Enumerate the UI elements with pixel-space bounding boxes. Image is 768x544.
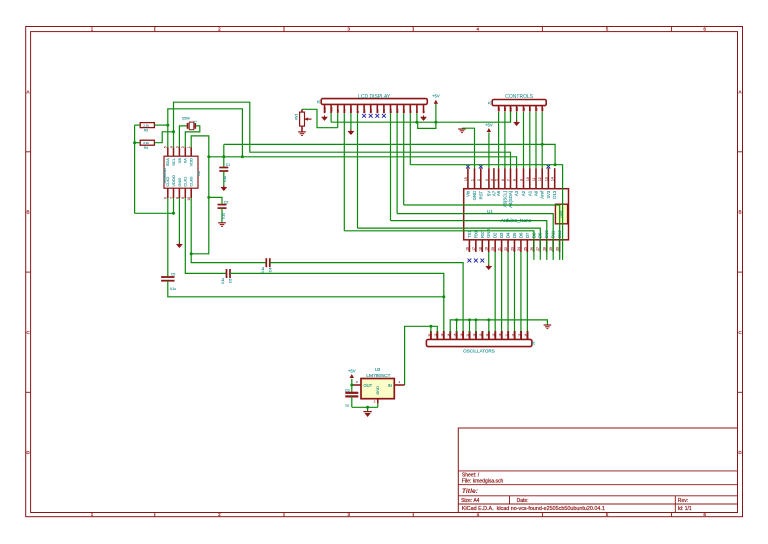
svg-text:GD: GD <box>515 107 519 111</box>
wire U1 GND bottom <box>488 252 490 266</box>
svg-text:+5V: +5V <box>432 93 440 98</box>
wire H1 bus <box>224 144 555 164</box>
capacitor C3 <box>351 385 353 393</box>
svg-text:A3: A3 <box>514 190 519 196</box>
svg-text:C5: C5 <box>171 272 175 276</box>
ic U3 GND pin <box>377 399 379 404</box>
wire osc pin5 stub <box>456 320 458 332</box>
svg-text:0.1u: 0.1u <box>261 267 265 273</box>
svg-text:D1: D1 <box>369 109 373 113</box>
wire controls pin1 to A6 <box>498 112 500 168</box>
svg-text:Vin: Vin <box>465 190 470 197</box>
svg-text:17: 17 <box>472 247 476 251</box>
svg-text:D4: D4 <box>506 232 511 238</box>
svg-text:GND: GND <box>177 178 182 187</box>
wire osc power line <box>405 326 438 385</box>
ic U3 LM7805 body <box>361 379 394 399</box>
connector J1 CONTROLS body <box>492 100 546 106</box>
wire gnd to arduino GND <box>462 128 475 168</box>
wire controls pin3 stub <box>510 112 512 122</box>
wire SCL route up-over <box>174 102 511 168</box>
wire osc pin8 stub <box>475 320 477 332</box>
svg-text:28: 28 <box>543 247 547 251</box>
capacitor C6 <box>226 269 228 278</box>
svg-text:D0: D0 <box>362 109 366 113</box>
frame column ticks <box>154 27 156 32</box>
svg-text:0.1u: 0.1u <box>170 287 176 291</box>
node SDA-VDD junction <box>241 155 244 158</box>
wire SDA route up-over <box>168 109 243 157</box>
wire LCD D7 down <box>409 113 411 165</box>
wire D5 line <box>397 214 553 260</box>
ground C1 <box>221 187 227 191</box>
svg-text:D7: D7 <box>525 232 530 238</box>
resistor R4 body <box>140 140 154 145</box>
wire U2 GND pin down <box>178 198 180 244</box>
svg-text:J1: J1 <box>487 101 491 105</box>
potentiometer RV1 wiper <box>305 118 312 120</box>
node osc pin5 <box>455 318 458 321</box>
ground controls pin4 <box>514 122 520 126</box>
svg-text:CLK1: CLK1 <box>183 176 188 187</box>
svg-text:B: B <box>738 210 741 215</box>
ic U1 USB box <box>555 204 567 224</box>
svg-text:+5V: +5V <box>485 123 493 128</box>
no-connect U1 RX0 <box>474 259 478 263</box>
svg-text:14: 14 <box>551 177 555 181</box>
svg-text:File: kmedgisa.sch: File: kmedgisa.sch <box>462 479 504 485</box>
connector J3 OSCILLATORS body <box>426 339 532 346</box>
svg-text:XA: XA <box>183 158 188 164</box>
wire rail loop <box>418 122 436 128</box>
crystal Y1 body <box>189 122 194 130</box>
wire CLK0 down <box>191 198 266 263</box>
wire SDA horizontal to A3 <box>209 157 517 168</box>
wire controls pin8 to Aref <box>541 112 543 168</box>
svg-text:26: 26 <box>530 247 534 251</box>
node R3-SDA junction <box>166 124 169 127</box>
wire D4 line <box>391 221 547 260</box>
wire +5V to arduino 5V pin <box>488 132 490 168</box>
wire RS line <box>344 231 534 260</box>
svg-text:5: 5 <box>495 179 499 181</box>
svg-text:Aref: Aref <box>540 190 545 199</box>
svg-text:4: 4 <box>477 27 480 32</box>
svg-text:23: 23 <box>510 247 514 251</box>
svg-text:5: 5 <box>164 146 168 148</box>
svg-text:U3: U3 <box>375 367 381 372</box>
ground C2 <box>218 222 226 224</box>
svg-text:9: 9 <box>520 179 524 181</box>
svg-text:J3: J3 <box>532 342 536 346</box>
resistor R4 left wire <box>135 142 141 144</box>
wire pullup rail to VDDO <box>135 212 174 214</box>
svg-text:A: A <box>415 111 419 113</box>
connector J1 pin stubs <box>498 106 500 112</box>
title block row lines <box>458 470 737 472</box>
svg-text:RST: RST <box>478 190 483 199</box>
svg-text:GND: GND <box>472 191 477 201</box>
svg-text:C1: C1 <box>226 163 230 167</box>
no-connect LCD D0 <box>362 114 366 118</box>
svg-text:VDD: VDD <box>189 158 194 167</box>
svg-text:SI5351A: SI5351A <box>162 168 167 184</box>
svg-text:S2: S2 <box>503 107 507 111</box>
svg-text:VDDO: VDDO <box>171 175 176 187</box>
resistor R4 right wire <box>154 132 173 143</box>
svg-text:D13: D13 <box>552 190 557 198</box>
connector J3 pin stubs <box>430 331 432 339</box>
svg-text:D6: D6 <box>402 109 406 113</box>
svg-text:25: 25 <box>523 247 527 251</box>
svg-text:RV1: RV1 <box>294 113 298 119</box>
wire controls pin4 gnd <box>516 112 518 122</box>
svg-text:A6: A6 <box>496 190 501 196</box>
no-connect U1 3V3 <box>547 165 551 169</box>
svg-text:24: 24 <box>517 247 521 251</box>
svg-text:3: 3 <box>347 512 350 517</box>
svg-text:25M: 25M <box>182 116 190 121</box>
svg-text:15: 15 <box>464 177 468 181</box>
ic U3 OUT pin <box>352 384 361 386</box>
svg-text:RS: RS <box>343 109 347 113</box>
svg-text:S1: S1 <box>497 107 501 111</box>
svg-text:V0: V0 <box>336 109 340 113</box>
svg-text:S4: S4 <box>528 107 532 111</box>
svg-text:S6: S6 <box>541 107 545 111</box>
svg-text:22: 22 <box>504 247 508 251</box>
svg-text:J2: J2 <box>317 100 321 104</box>
ground U1 bottom <box>486 266 492 270</box>
svg-text:CLK0: CLK0 <box>189 176 194 187</box>
svg-text:D2: D2 <box>376 109 380 113</box>
power +5V LCD <box>435 104 437 123</box>
capacitor C5 <box>161 276 174 278</box>
node pullup rail junction <box>133 141 136 144</box>
svg-text:D5: D5 <box>512 232 517 238</box>
svg-text:GND: GND <box>486 229 491 238</box>
svg-text:LCD DISPLAY: LCD DISPLAY <box>358 94 391 100</box>
node H1 controls junction <box>541 143 544 146</box>
wire U1 D3 to osc <box>501 252 503 332</box>
svg-text:13: 13 <box>544 177 548 181</box>
ground U3 <box>367 407 369 411</box>
no-connect LCD D2 <box>375 114 379 118</box>
svg-text:Title:: Title: <box>462 488 478 495</box>
svg-text:9: 9 <box>181 197 185 199</box>
svg-text:A2: A2 <box>521 190 526 196</box>
svg-text:0.1u: 0.1u <box>221 213 225 219</box>
svg-text:8: 8 <box>175 197 179 199</box>
svg-text:D6: D6 <box>518 232 523 238</box>
title block outline <box>458 428 737 513</box>
svg-text:C3: C3 <box>345 388 350 392</box>
svg-text:1: 1 <box>187 146 191 148</box>
wire pullup left rail <box>134 125 136 213</box>
frame row ticks <box>26 151 31 153</box>
svg-text:2: 2 <box>218 512 221 517</box>
svg-text:IN: IN <box>388 383 392 388</box>
title block column lines <box>509 496 511 504</box>
svg-text:3: 3 <box>175 146 179 148</box>
svg-text:C2: C2 <box>224 200 228 204</box>
wire crystal right to XA <box>185 126 200 147</box>
svg-text:19: 19 <box>485 247 489 251</box>
wire CLK2 line right <box>168 281 444 297</box>
svg-text:VSS: VSS <box>323 107 327 113</box>
wire rail to controls pin3 <box>436 106 511 123</box>
resistor R3 left wire <box>135 124 141 126</box>
svg-text:C4: C4 <box>268 268 272 272</box>
svg-text:0.1u: 0.1u <box>223 176 227 182</box>
svg-text:D3: D3 <box>499 232 504 238</box>
wire LCD VDD to rail <box>330 113 332 122</box>
svg-text:6: 6 <box>703 27 706 32</box>
ic U2 top pin stubs <box>167 147 169 156</box>
wire controls pin7 to A0 <box>535 112 537 168</box>
svg-text:5: 5 <box>606 27 609 32</box>
svg-text:27: 27 <box>536 247 540 251</box>
connector J2 pin stubs <box>324 104 326 113</box>
svg-text:Rev:: Rev: <box>678 498 688 504</box>
no-connect LCD D3 <box>382 114 386 118</box>
svg-text:D3: D3 <box>382 109 386 113</box>
svg-text:1: 1 <box>91 512 94 517</box>
node U3 OUT junction <box>350 384 353 387</box>
svg-text:S3: S3 <box>522 107 526 111</box>
node CLK0 junction <box>190 252 193 255</box>
svg-text:2: 2 <box>218 27 221 32</box>
svg-text:3: 3 <box>347 27 350 32</box>
wire LCD V0 down <box>337 113 339 128</box>
svg-text:SDA: SDA <box>165 158 170 167</box>
svg-text:GND: GND <box>376 386 380 395</box>
svg-text:Id: 1/1: Id: 1/1 <box>678 506 692 512</box>
wire LCD D5 down <box>396 113 398 213</box>
svg-text:KiCad E.D.A. kicad no-vcs-fou: KiCad E.D.A. kicad no-vcs-found-e2505cb5… <box>462 506 605 512</box>
svg-text:D4: D4 <box>389 109 393 113</box>
ground arduino GND pin <box>458 128 466 130</box>
wire U1 D7 to osc <box>526 252 528 332</box>
node R4-SCL junction <box>172 130 175 133</box>
ic U2 SI5351A body <box>164 156 198 188</box>
wire RV1 bottom <box>301 126 303 132</box>
node VDDO junction <box>172 212 175 215</box>
potentiometer RV1 body <box>300 112 305 126</box>
resistor R3 body <box>140 123 154 128</box>
ground RV1 <box>298 131 306 133</box>
wire VDD pin up and over <box>191 136 209 254</box>
svg-text:7: 7 <box>169 197 173 199</box>
wire +5V rail LCD <box>331 121 436 123</box>
svg-text:5V: 5V <box>509 108 513 112</box>
wire LCD D6 down <box>403 113 405 205</box>
node osc pin7 <box>468 318 471 321</box>
no-connect U1 RST <box>479 165 483 169</box>
svg-text:2.2k: 2.2k <box>143 141 149 145</box>
svg-text:+5V: +5V <box>348 369 356 374</box>
svg-text:6: 6 <box>501 179 505 181</box>
svg-text:S5: S5 <box>534 107 538 111</box>
svg-text:B: B <box>27 210 30 215</box>
svg-text:CONTROLS: CONTROLS <box>505 94 533 100</box>
svg-text:Sheet: /: Sheet: / <box>462 472 480 478</box>
node VDD 4-way junction <box>207 155 210 158</box>
wire LCD E down <box>357 113 359 228</box>
ground LCD K <box>421 117 427 121</box>
svg-text:1: 1 <box>471 179 475 181</box>
node U3 ground junction <box>366 406 369 409</box>
ground LCD RW <box>348 131 354 135</box>
wire E line <box>358 228 541 260</box>
wire U3 ground link <box>352 406 378 408</box>
capacitor C4 <box>265 258 267 267</box>
wire LCD D4 down <box>390 113 392 220</box>
svg-text:D2: D2 <box>493 232 498 238</box>
svg-text:8: 8 <box>513 179 517 181</box>
svg-text:VDD: VDD <box>329 107 333 113</box>
wire CLK1 line right <box>230 273 444 332</box>
ic U1 bottom pin stubs <box>468 240 470 252</box>
node rail 5V column <box>434 121 437 124</box>
wire RV1 top to LCD V0 <box>301 109 303 112</box>
wire D7 line <box>410 165 562 260</box>
wire crystal left to XB <box>179 126 186 147</box>
svg-text:18: 18 <box>478 247 482 251</box>
svg-text:SCL: SCL <box>171 157 176 166</box>
power +5V U3 <box>351 379 353 385</box>
connector J2 LCD body <box>321 99 427 105</box>
wire U1 D5 to osc <box>513 252 515 332</box>
ic U1 top pin stubs <box>467 168 469 189</box>
wire LCD RW down <box>350 113 352 131</box>
svg-text:C6: C6 <box>229 279 233 283</box>
svg-text:A1: A1 <box>527 190 532 196</box>
svg-text:K: K <box>422 111 426 113</box>
svg-text:RW: RW <box>349 108 353 113</box>
wire U1 D2 to osc <box>494 252 496 332</box>
svg-text:A0: A0 <box>534 190 539 196</box>
no-connect U1 TX1 <box>468 259 472 263</box>
svg-text:Y1: Y1 <box>194 120 198 124</box>
wire H1 +5V bus link <box>223 144 225 156</box>
svg-text:R3: R3 <box>144 129 148 133</box>
svg-text:2: 2 <box>181 146 185 148</box>
node H1 joins D7 line <box>554 163 557 166</box>
svg-text:1: 1 <box>91 27 94 32</box>
wire CLK2 down <box>167 198 169 277</box>
capacitor C2 <box>209 197 222 204</box>
svg-text:Date:: Date: <box>517 498 529 504</box>
wire osc ground rail <box>450 320 547 332</box>
svg-text:10: 10 <box>187 197 191 201</box>
node osc pin8 <box>474 318 477 321</box>
svg-text:4: 4 <box>490 179 494 181</box>
wire osc pin7 stub <box>469 320 471 332</box>
wire D6 line <box>404 205 560 260</box>
ic U1 Arduino Nano body <box>464 189 569 240</box>
svg-text:0.1u: 0.1u <box>221 278 225 284</box>
svg-text:3V3: 3V3 <box>546 190 551 198</box>
wire VDDO pin down <box>173 198 175 213</box>
svg-text:21: 21 <box>498 247 502 251</box>
no-connect LCD D1 <box>369 114 373 118</box>
svg-text:6: 6 <box>164 197 168 199</box>
wire U1 D4 to osc <box>507 252 509 332</box>
svg-text:U2: U2 <box>196 170 201 176</box>
ground U2 <box>176 244 182 248</box>
svg-text:R4: R4 <box>144 146 148 150</box>
svg-text:Size: A4: Size: A4 <box>461 498 480 504</box>
wire CLK0 line right <box>270 263 463 333</box>
no-connect U1 Vin <box>466 165 470 169</box>
node rail pin15 <box>415 121 418 124</box>
no-connect U1 RST bottom <box>480 259 484 263</box>
svg-text:29: 29 <box>549 247 553 251</box>
svg-text:16: 16 <box>465 247 469 251</box>
svg-text:12: 12 <box>538 177 542 181</box>
node CLK2 joins CLK line <box>442 295 445 298</box>
node osc pin10 <box>487 318 490 321</box>
ground LCD VSS <box>322 117 328 121</box>
svg-text:3: 3 <box>485 179 489 181</box>
wire LCD RS down <box>343 113 345 231</box>
svg-text:D7: D7 <box>409 109 413 113</box>
wire U1 D6 to osc <box>520 252 522 332</box>
svg-text:30: 30 <box>556 247 560 251</box>
wire osc pin10 stub <box>488 320 490 332</box>
svg-text:7: 7 <box>507 179 511 181</box>
svg-text:OUT: OUT <box>364 383 373 388</box>
node C1 junction <box>222 155 225 158</box>
power +5V arduino <box>487 128 491 132</box>
wire controls pin5 to A2 <box>523 112 525 168</box>
svg-text:E: E <box>356 111 360 113</box>
svg-text:OSCILLATORS: OSCILLATORS <box>463 349 495 354</box>
svg-text:4: 4 <box>169 146 173 148</box>
ic U3 IN pin <box>394 384 404 386</box>
svg-text:2.2k: 2.2k <box>143 124 149 128</box>
wire CLK1 line left <box>185 198 226 273</box>
svg-text:D5: D5 <box>395 109 399 113</box>
wire osc pin1 stub <box>430 326 432 332</box>
svg-text:LM7805CT: LM7805CT <box>366 373 390 379</box>
ic U2 bottom pin stubs <box>167 188 169 198</box>
wire controls pin6 to A1 <box>529 112 531 168</box>
svg-text:XB: XB <box>177 158 182 164</box>
svg-text:20: 20 <box>491 247 495 251</box>
capacitor C1 <box>223 157 225 168</box>
node osc pin1 <box>429 325 432 328</box>
wire controls pin2 to A5 <box>504 112 506 168</box>
svg-text:10: 10 <box>526 177 530 181</box>
resistor R3 right wire <box>154 124 167 126</box>
svg-text:11: 11 <box>532 177 536 181</box>
wire LCD A to rail <box>416 113 418 122</box>
svg-text:1u: 1u <box>345 404 349 408</box>
svg-text:2: 2 <box>477 179 481 181</box>
node C2 junction <box>207 196 210 199</box>
ground osc rail <box>544 324 552 326</box>
